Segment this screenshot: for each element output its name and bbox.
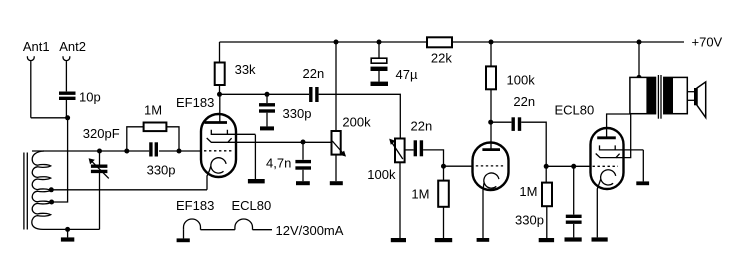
tube EF183 envelope bbox=[201, 114, 236, 177]
svg-text:330p: 330p bbox=[515, 213, 544, 228]
wire grid node to triode bbox=[444, 165, 474, 167]
wire top rail bbox=[220, 41, 685, 43]
svg-text:10p: 10p bbox=[79, 90, 101, 105]
tube EF183 cathode bbox=[207, 158, 226, 190]
resistor 1M triode grid bbox=[411, 166, 452, 242]
resistor 22k bbox=[427, 37, 452, 65]
svg-text:4,7n: 4,7n bbox=[266, 155, 291, 170]
node transformer top bbox=[637, 75, 642, 80]
svg-text:ECL80: ECL80 bbox=[555, 103, 595, 118]
svg-text:EF183: EF183 bbox=[176, 95, 214, 110]
svg-text:320pF: 320pF bbox=[83, 126, 120, 141]
capacitor 4,7n bbox=[266, 142, 311, 185]
capacitor 10p bbox=[59, 90, 101, 118]
resistor 1M grid leak bbox=[127, 103, 179, 151]
svg-text:47µ: 47µ bbox=[396, 67, 418, 82]
tube ECL80 triode grid bbox=[476, 165, 503, 167]
wire EF183 anode node bbox=[220, 93, 310, 95]
tube ECL80 pentode screen g2 bbox=[600, 145, 644, 150]
wire 22n to triode grid bbox=[423, 150, 443, 166]
coil core bbox=[24, 153, 27, 230]
svg-text:1M: 1M bbox=[519, 184, 537, 199]
svg-text:12V/300mA: 12V/300mA bbox=[276, 223, 344, 238]
node grid leak right bbox=[177, 149, 182, 154]
heater ECL80 filament bbox=[235, 219, 253, 230]
capacitor 22n coupling 1 bbox=[303, 66, 325, 102]
svg-text:22n: 22n bbox=[411, 119, 433, 134]
tube ECL80 triode envelope bbox=[473, 143, 509, 191]
capacitor 47u electrolytic bbox=[371, 42, 418, 86]
node ECL80 grid bbox=[544, 164, 549, 169]
wire junction down to coil tap bbox=[52, 118, 68, 202]
svg-text:22n: 22n bbox=[513, 94, 535, 109]
ground g2 ECL80 bbox=[636, 181, 649, 185]
tube ECL80 pentode envelope bbox=[591, 128, 624, 189]
tube ECL80 triode anode bbox=[482, 122, 500, 149]
wire tank top bbox=[32, 150, 149, 152]
capacitor 22n coupling 3 bbox=[491, 94, 547, 167]
svg-text:ECL80: ECL80 bbox=[232, 198, 272, 213]
inductor L1 coil bbox=[32, 151, 51, 229]
svg-text:1M: 1M bbox=[144, 103, 162, 118]
wire 22n to 100k pot bbox=[319, 94, 401, 138]
node coil tap lower bbox=[49, 200, 54, 205]
wire filament to supply label bbox=[253, 229, 273, 231]
tube EF183 control grid g1 bbox=[204, 150, 232, 152]
tube ECL80 triode cathode bbox=[477, 173, 499, 242]
svg-text:330p: 330p bbox=[283, 106, 312, 121]
wire ECL80 grid line bbox=[546, 165, 590, 167]
tube ECL80 pentode grid g1 bbox=[593, 165, 619, 167]
node rail 100k bbox=[489, 40, 494, 45]
tube EF183 anode bbox=[205, 94, 228, 122]
svg-text:22k: 22k bbox=[431, 51, 452, 66]
tube ECL80 pentode beam plates bbox=[596, 154, 620, 158]
node antenna junction bbox=[65, 115, 70, 120]
wire cathode line to upper tap bbox=[49, 189, 207, 191]
svg-text:+70V: +70V bbox=[692, 35, 723, 50]
wire Ant1 to junction bbox=[31, 117, 68, 119]
capacitor 330p grid bbox=[147, 142, 201, 177]
wire rail to transformer bbox=[638, 42, 640, 77]
node coil tap upper bbox=[49, 187, 54, 192]
wire g2 to ground bbox=[642, 150, 644, 182]
svg-text:100k: 100k bbox=[507, 73, 536, 88]
tube ECL80 pentode anode bbox=[597, 114, 630, 138]
node 4,7n junction bbox=[301, 140, 306, 145]
wire coil bottom bbox=[43, 228, 100, 230]
node triode anode bbox=[488, 120, 493, 125]
svg-text:Ant1: Ant1 bbox=[23, 39, 50, 54]
capacitor 22n coupling 2 bbox=[411, 119, 433, 157]
resistor 100k anode triode bbox=[486, 42, 535, 122]
node anode 330p bbox=[265, 92, 270, 97]
svg-text:1M: 1M bbox=[411, 186, 429, 201]
heater EF183 filament bbox=[184, 219, 201, 230]
svg-text:330p: 330p bbox=[147, 163, 176, 178]
potentiometer 200k bbox=[330, 42, 371, 185]
node ground junction bbox=[65, 227, 70, 232]
tube EF183 beam plates g3 bbox=[207, 138, 232, 142]
wire between filaments bbox=[201, 229, 235, 231]
resistor 1M ECL80 grid bbox=[519, 166, 554, 242]
resistor 33k bbox=[215, 42, 256, 94]
tube ECL80 pentode cathode bbox=[592, 170, 616, 242]
ground heater bbox=[177, 230, 190, 243]
wire EF183 g3 to 200k bbox=[228, 141, 332, 143]
speaker bbox=[687, 82, 705, 118]
svg-text:200k: 200k bbox=[342, 115, 371, 130]
node triode grid bbox=[441, 164, 446, 169]
capacitor 330p anode bbox=[259, 94, 311, 130]
capacitor 320pF variable bbox=[83, 126, 120, 230]
svg-text:EF183: EF183 bbox=[176, 198, 214, 213]
transformer output bbox=[630, 75, 687, 119]
wire beam plates to transformer bbox=[616, 114, 631, 158]
ground EF183 g2 bbox=[248, 179, 265, 183]
node rail transformer bbox=[637, 40, 642, 45]
capacitor 330p ECL80 grid bbox=[515, 166, 582, 241]
svg-text:33k: 33k bbox=[235, 62, 256, 77]
svg-text:22n: 22n bbox=[303, 66, 325, 81]
node grid leak left bbox=[124, 149, 129, 154]
node anode 33k bbox=[217, 92, 222, 97]
node rail 47u bbox=[377, 40, 382, 45]
terminal Ant1 bbox=[23, 39, 50, 118]
terminal Ant2 bbox=[59, 39, 86, 91]
svg-text:100k: 100k bbox=[367, 167, 396, 182]
tube EF183 screen grid g2 bbox=[211, 130, 255, 135]
ground bbox=[61, 229, 74, 241]
node 320pF top bbox=[97, 149, 102, 154]
svg-text:Ant2: Ant2 bbox=[59, 39, 86, 54]
node 330p branch bbox=[571, 164, 576, 169]
potentiometer 100k volume bbox=[367, 139, 413, 243]
node rail 200k bbox=[334, 40, 339, 45]
wire EF183 g2 to ground bbox=[254, 135, 256, 179]
